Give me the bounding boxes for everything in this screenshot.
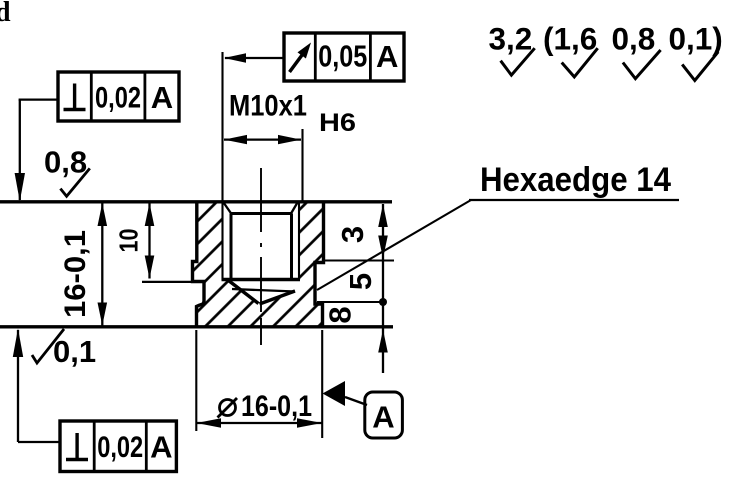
svg-text:5: 5 [343, 273, 378, 290]
feature control frame FCF1 (top left, perpendicularity 0,02 A) [58, 72, 179, 121]
extension line flange left [195, 330, 197, 431]
extension line M10 left [221, 52, 223, 202]
svg-text:3,2: 3,2 [489, 21, 533, 57]
dimension M10x1 line with arrows [224, 135, 301, 144]
roughness check 2 [562, 48, 598, 77]
roughness values row 3,2 (1,6 0,8 0,1) [489, 21, 723, 57]
svg-text:Hexaedge 14: Hexaedge 14 [480, 161, 671, 199]
svg-text:d: d [0, 0, 11, 28]
bottom surface line [0, 325, 393, 328]
section hatching of part body [193, 202, 324, 327]
circular runout symbol in FCF2 [290, 43, 312, 73]
feature control frame FCF2 (runout 0,05 A) [284, 33, 404, 81]
thread chamfer left [224, 203, 232, 215]
svg-text:A: A [151, 80, 173, 115]
roughness check mark for 0,1 [32, 329, 64, 363]
svg-text:H6: H6 [319, 109, 356, 137]
extension line at flange step (y=302) [317, 301, 384, 303]
datum A box [365, 392, 403, 438]
thread major diameter line right [298, 202, 300, 280]
datum A connector line [345, 397, 367, 405]
roughness check 4 [682, 52, 718, 81]
leader from FCF1 to top surface [15, 100, 58, 202]
roughness check mark for 0,8 [60, 168, 89, 196]
drill cone left flank [229, 281, 259, 304]
extension line flange right [321, 330, 323, 438]
label diameter 16-0,1 [218, 390, 313, 423]
drill cone shallow line [232, 289, 295, 292]
svg-text:3: 3 [335, 226, 370, 243]
extension line M10 right [301, 129, 303, 203]
extension line at hex step (y=260) [325, 259, 395, 261]
svg-text:0,05: 0,05 [318, 39, 367, 74]
thread major diameter line left [221, 202, 223, 280]
svg-text:M10x1: M10x1 [229, 90, 307, 123]
bore line right (minor diameter) [290, 214, 293, 281]
thread end line [222, 278, 301, 282]
svg-text:A: A [150, 430, 172, 465]
leader from FCF3 to bottom surface [13, 329, 60, 443]
svg-text:8: 8 [323, 306, 358, 323]
top surface line [0, 200, 392, 203]
svg-text:0,1: 0,1 [53, 334, 96, 369]
part outline right profile [315, 202, 324, 327]
perpendicularity symbol in FCF1 [64, 84, 86, 110]
svg-text:10: 10 [114, 229, 144, 253]
perpendicularity symbol in FCF3 [66, 433, 88, 460]
right step dimension line (3 / 5 / 8) [378, 204, 388, 373]
datum A triangle on extension line [323, 381, 346, 406]
svg-text:16-0,1: 16-0,1 [59, 230, 92, 318]
dimension 10 (thread depth, vertical) [145, 203, 155, 279]
roughness check 3 [623, 50, 661, 79]
feature control frame FCF3 (bottom, perpendicularity 0,02 A) [60, 421, 176, 472]
chamfer base line [231, 212, 292, 215]
svg-text:0,8: 0,8 [612, 21, 656, 57]
svg-text:0,02: 0,02 [95, 82, 141, 115]
svg-text:A: A [376, 39, 398, 74]
svg-text:0,8: 0,8 [44, 145, 87, 180]
dimension 16-0,1 (left vertical) [98, 203, 108, 326]
thread chamfer right [291, 203, 298, 214]
underline of Hexaedge label [469, 199, 679, 201]
dimension line diameter 16-0,1 [197, 418, 323, 428]
svg-text:A: A [372, 400, 394, 435]
part outline left profile [193, 202, 205, 327]
centerline of bore [260, 168, 262, 345]
extension line for thread depth [142, 281, 196, 283]
svg-text:0,1): 0,1) [669, 21, 723, 57]
svg-text:16-0,1: 16-0,1 [241, 390, 312, 423]
drill cone right flank [260, 291, 296, 304]
leader from FCF2 to thread axis extension line [224, 53, 284, 62]
svg-text:(1,6: (1,6 [543, 21, 597, 57]
bore line left (minor diameter) [230, 214, 233, 281]
roughness check 1 [501, 48, 535, 75]
leader line to hex flats [317, 200, 471, 290]
svg-text:0,02: 0,02 [97, 431, 143, 464]
